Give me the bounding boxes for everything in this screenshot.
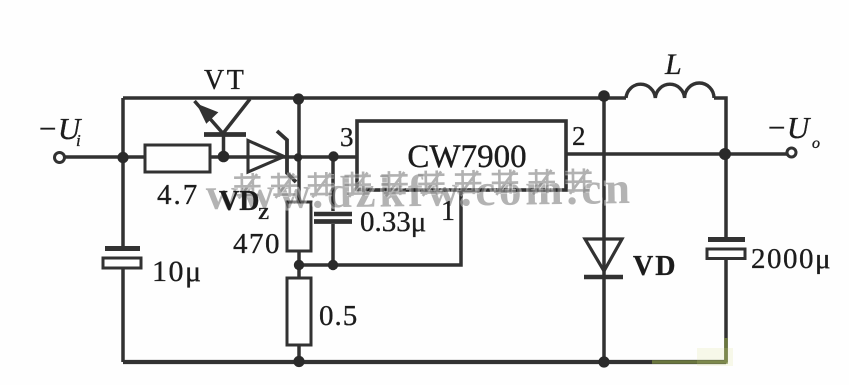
- svg-text:−U: −U: [766, 110, 812, 145]
- wire: vertical x=299 resistor 470 to resistor 0.5: [297, 251, 301, 278]
- node: VT base on main line: [218, 151, 230, 163]
- node: 0.33u branch on main line: [328, 151, 338, 161]
- node: 0.33u bottom junction: [328, 260, 338, 270]
- svg-text:o: o: [812, 135, 820, 152]
- wire: top rail from upper-left corner to inductor: [123, 96, 626, 100]
- node: top rail / inductor-diode branch: [598, 90, 610, 102]
- svg-text:L: L: [664, 48, 682, 81]
- wire: vertical x=333 below 0.33u cap to node line: [331, 224, 335, 265]
- wire: olive-green tinted bottom-right corner segment: [652, 338, 733, 366]
- svg-text:VD: VD: [633, 251, 677, 282]
- transistor VT: [195, 99, 251, 157]
- node: bottom rail / 0.5: [293, 356, 304, 367]
- wire: vertical x=299 from top rail to resistor 470: [297, 98, 301, 202]
- svg-text:0.5: 0.5: [319, 300, 358, 332]
- watermark: chinese company name: [234, 168, 592, 198]
- inductor L: [626, 83, 714, 98]
- capacitor 2000u: [708, 237, 745, 242]
- wire: IC pin 2 output line: [566, 152, 787, 156]
- wire: main line from resistor 4.7 through zener to IC pin 3: [210, 155, 357, 159]
- node: output line / 2000u branch: [719, 148, 731, 160]
- svg-text:VT: VT: [204, 65, 246, 96]
- wire: left vertical from top rail down to input node and 10u cap: [121, 98, 125, 246]
- svg-text:2: 2: [572, 121, 586, 151]
- node: input/left branch: [117, 152, 128, 163]
- svg-text:4.7: 4.7: [157, 179, 199, 211]
- svg-text:Z: Z: [258, 204, 269, 223]
- wire: vertical x=299 resistor 0.5 to bottom rail: [297, 345, 301, 362]
- node: top rail / divider: [293, 93, 304, 104]
- capacitor 0.33u: [314, 212, 352, 216]
- wire: vertical x=604 from top rail through diode VD to bottom rail: [602, 95, 606, 362]
- svg-text:1: 1: [441, 196, 455, 227]
- node: bottom rail / VD: [598, 356, 609, 367]
- resistor 470: [287, 202, 311, 251]
- diode VD: [585, 239, 622, 271]
- capacitor 10u: [105, 246, 140, 251]
- resistor 0.5: [287, 278, 311, 345]
- watermark: www.dzkfw.com.cn: [205, 163, 634, 219]
- svg-text:VD: VD: [219, 186, 259, 217]
- wire: node line y=265 from 470/0.5 junction to IC pin 1: [299, 190, 461, 265]
- svg-text:3: 3: [340, 122, 354, 152]
- output terminal circle: [787, 148, 796, 157]
- svg-text:CW7900: CW7900: [407, 139, 526, 175]
- wire: vertical x=333 from main line to 0.33u cap: [331, 157, 335, 211]
- zener diode VDZ: [248, 141, 284, 173]
- op-amp IC U1 CW7900 box: [357, 121, 566, 190]
- svg-text:10μ: 10μ: [152, 255, 203, 288]
- svg-text:2000μ: 2000μ: [751, 243, 832, 275]
- node: 470-0.5 junction: [294, 260, 304, 270]
- resistor 4.7: [145, 145, 210, 172]
- svg-text:470: 470: [233, 228, 281, 260]
- svg-text:0.33μ: 0.33μ: [360, 206, 426, 238]
- wire: vertical x=726 below 2000u cap to bottom rail: [724, 258, 728, 362]
- wire: left vertical below 10u cap to bottom rail: [121, 268, 125, 362]
- wire: inductor output corner down to output line: [714, 98, 726, 154]
- svg-text:i: i: [76, 131, 81, 150]
- wire: main input line from input terminal to resistor 4.7: [64, 155, 147, 159]
- wire: vertical x=726 output line down to 2000u cap: [724, 154, 728, 237]
- wire: bottom rail: [123, 360, 726, 364]
- input terminal circle: [55, 153, 65, 163]
- node: zener cathode / divider line: [294, 153, 302, 161]
